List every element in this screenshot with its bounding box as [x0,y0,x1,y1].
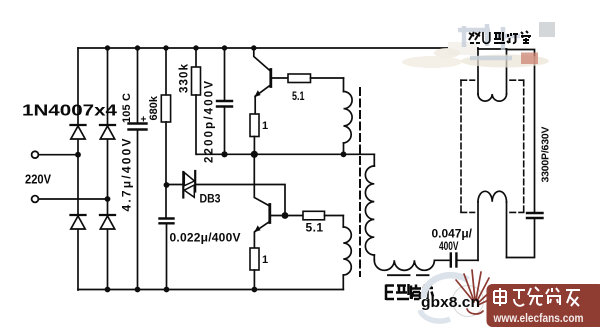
watermark elecfans logo [420,270,495,321]
wire Q1 base [272,77,289,79]
resistor 5.1 (Q2 base) [303,211,343,220]
wire Q2 base [271,215,304,217]
junction midpoint / W1 [341,151,347,157]
junction ground rail / C1 [135,287,141,293]
junction midpoint / Q1 emitter [251,151,258,158]
svg-text:0.022μ/400V: 0.022μ/400V [170,231,241,245]
winding W1 (Q1 drive) [344,78,353,154]
transistor Q2 [254,154,269,248]
label lamp CJK (shuang U xing deng guan) [469,31,531,43]
diac DB3 [183,171,195,198]
capacitor 2200p/400V [217,48,232,154]
wire midpoint rail [197,153,375,155]
svg-text:1: 1 [262,254,268,266]
lamp tube double-U [478,49,507,101]
junction DB3 node [164,182,170,188]
terminal AC1 [32,151,39,158]
svg-text:DB3: DB3 [200,192,221,206]
transistor Q1 [254,48,271,114]
junction B+ rail / 330k [193,45,198,50]
junction AC input 2 [105,196,111,202]
inductor L1 E-core winding (horizontal) [374,260,449,270]
watermark top blobs [402,22,555,68]
junction AC input 1 [75,152,81,158]
label E-core CJK (E xing ci xin) [386,284,433,300]
junction ground rail / Q2 emitter [252,287,258,293]
capacitor C1 4.7u/400V electrolytic [129,48,147,290]
wire DB3 to Q2 base [196,185,285,216]
junction Q2 base node [282,212,289,219]
wire right bridge branch [107,48,109,290]
svg-text:1N4007x4: 1N4007x4 [22,103,117,120]
resistor 680k [161,48,170,219]
svg-text:3300P/630V: 3300P/630V [540,127,552,183]
resistor 1 (Q1 emitter) [250,114,259,154]
terminal AC2 [32,196,39,203]
diode D2 [100,125,115,139]
core line E-core [388,274,429,276]
svg-text:www.elecfans.com: www.elecfans.com [493,313,584,325]
svg-text:+: + [141,115,147,126]
wire AC2 to bridge [39,198,108,200]
svg-text:2200p/400V: 2200p/400V [204,81,216,163]
diode D3 [71,215,86,229]
winding W2 (Q2 drive) [343,216,351,290]
wire DB3 branch [167,184,184,186]
junction midpoint / 2200p [221,151,227,157]
wire lamp right to C 3300P [507,218,535,258]
wire left bridge branch [77,48,79,290]
inductor L1 primary (vertical) [365,154,374,260]
watermark elecfans box [487,284,600,327]
wire AC1 to bridge [39,154,78,156]
junction B+ rail / 2200p [222,45,227,50]
wire top rail [78,47,478,49]
svg-text:680k: 680k [148,95,160,120]
lamp envelope dashed box [461,80,524,212]
capacitor 0.022u/400V [160,219,174,291]
capacitor 0.047u/400V [451,254,478,267]
capacitor 3300P/630V [507,50,543,219]
junction B+ rail / 680k [163,45,168,50]
resistor 330k [192,48,201,154]
svg-text:1: 1 [262,120,268,132]
junction ground rail / bridge [105,287,111,293]
resistor 5.1 (Q1 base) [288,74,344,83]
junction B+ rail / C1 [135,45,140,50]
svg-text:5.1: 5.1 [292,89,305,103]
wire bottom rail [78,289,343,291]
diode D4 [100,215,115,229]
svg-text:5.1: 5.1 [306,221,324,235]
junction B+ rail / Q1 collector [251,45,256,50]
svg-text:220V: 220V [25,172,51,187]
junction ground rail / 0.022u [164,287,170,293]
svg-text:105 C: 105 C [121,93,133,123]
resistor 1 (Q2 emitter) [250,248,259,290]
junction B+ rail / bridge [105,45,110,50]
svg-text:330k: 330k [179,63,191,93]
lamp filament lower [478,191,507,260]
svg-text:400V: 400V [439,239,459,253]
core line (feedback transformer) [359,88,361,276]
diode D1 [71,125,86,139]
svg-text:gbx8.cn: gbx8.cn [421,294,480,311]
